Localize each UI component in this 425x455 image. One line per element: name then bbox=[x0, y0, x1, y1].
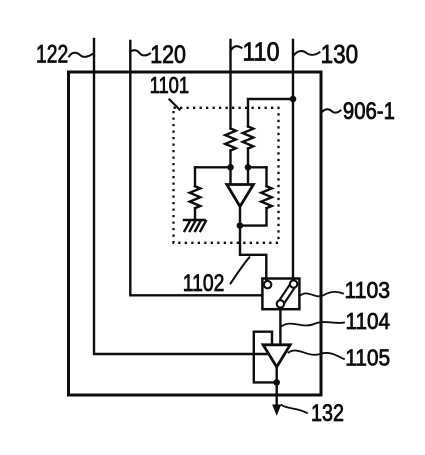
switch terminal circle top-left bbox=[264, 281, 271, 288]
wire output 132 with arrowhead bbox=[276, 367, 278, 406]
wire switch bottom terminal to amplifier 1105 bbox=[279, 308, 281, 345]
resistor R-left (input resistor from 110) bbox=[225, 129, 236, 151]
feedback resistor wire bottom and across to output bbox=[240, 208, 267, 225]
node row right horizontal wire bbox=[248, 166, 267, 168]
wavy leader for 132 bbox=[282, 405, 308, 413]
leader tilde for 120 bbox=[131, 50, 151, 55]
wire 122 (vertical from top, down and right to amplifier input) bbox=[94, 39, 269, 354]
switch lever bar bbox=[285, 289, 294, 303]
svg-text:110: 110 bbox=[243, 37, 280, 67]
outer block 906-1 box bbox=[69, 72, 322, 395]
wavy leader for 1105 bbox=[289, 351, 345, 359]
leader tilde for 906-1 bbox=[322, 109, 341, 112]
op-amp U1 (triangle in dotted box) bbox=[227, 185, 254, 207]
svg-text:122: 122 bbox=[36, 41, 68, 69]
wire 120 (vertical from top, down and right to switch box) bbox=[130, 41, 262, 295]
resistor R-feedback bbox=[261, 186, 272, 208]
dotted box 1101 bbox=[174, 108, 279, 243]
leader for 1101 bbox=[170, 100, 180, 110]
wavy leader for 1103 bbox=[300, 292, 343, 296]
svg-text:120: 120 bbox=[150, 41, 186, 69]
junction dot amplifier output node bbox=[273, 379, 280, 386]
junction dot node A bbox=[227, 164, 234, 171]
wavy leader for 1104 bbox=[282, 322, 344, 326]
svg-text:1105: 1105 bbox=[345, 345, 390, 371]
switch terminal circle bottom bbox=[277, 300, 284, 307]
wire from R-left to node A and into op-amp input bbox=[229, 151, 231, 185]
leader tilde for 130 bbox=[294, 51, 320, 55]
ground symbol bbox=[184, 220, 206, 231]
wire op-amp output down, jog right, into switch box (node 1102) bbox=[240, 207, 266, 282]
resistor R-ground (pull-down to ground) bbox=[190, 186, 201, 208]
wire down to ground resistor bbox=[194, 167, 196, 186]
feedback resistor wire top bbox=[265, 167, 267, 186]
svg-text:1103: 1103 bbox=[345, 277, 391, 303]
svg-text:1102: 1102 bbox=[183, 270, 225, 297]
switch box 1103 bbox=[262, 279, 299, 310]
svg-text:906-1: 906-1 bbox=[343, 98, 395, 125]
wire resistor to ground bbox=[194, 208, 196, 220]
svg-text:1101: 1101 bbox=[150, 72, 190, 98]
junction dot node B bbox=[245, 164, 252, 171]
node row left horizontal wire bbox=[195, 166, 231, 168]
svg-text:130: 130 bbox=[321, 41, 359, 69]
junction dot on line 130 bbox=[290, 96, 297, 103]
leader tilde for 110 bbox=[232, 46, 242, 49]
svg-text:132: 132 bbox=[311, 400, 344, 427]
feedback loop wire around amplifier 1105 bbox=[254, 332, 277, 383]
leader for 1102 bbox=[231, 257, 250, 283]
wire jog from node on 130 to right resistor bbox=[248, 99, 293, 127]
resistor R-right (input resistor from 130) bbox=[243, 127, 254, 149]
wire 130 (vertical from top down to switch box top-right terminal) bbox=[292, 40, 294, 281]
wire 110 (vertical from top into dotted box to resistor) bbox=[229, 40, 231, 129]
switch terminal circle top-right bbox=[290, 280, 297, 287]
svg-text:1104: 1104 bbox=[346, 308, 391, 334]
junction dot op-amp output node bbox=[237, 222, 244, 229]
wire from R-right to node B and into op-amp input bbox=[247, 149, 249, 185]
leader tilde for 122 bbox=[69, 53, 93, 57]
amplifier 1105 triangle bbox=[263, 345, 290, 367]
